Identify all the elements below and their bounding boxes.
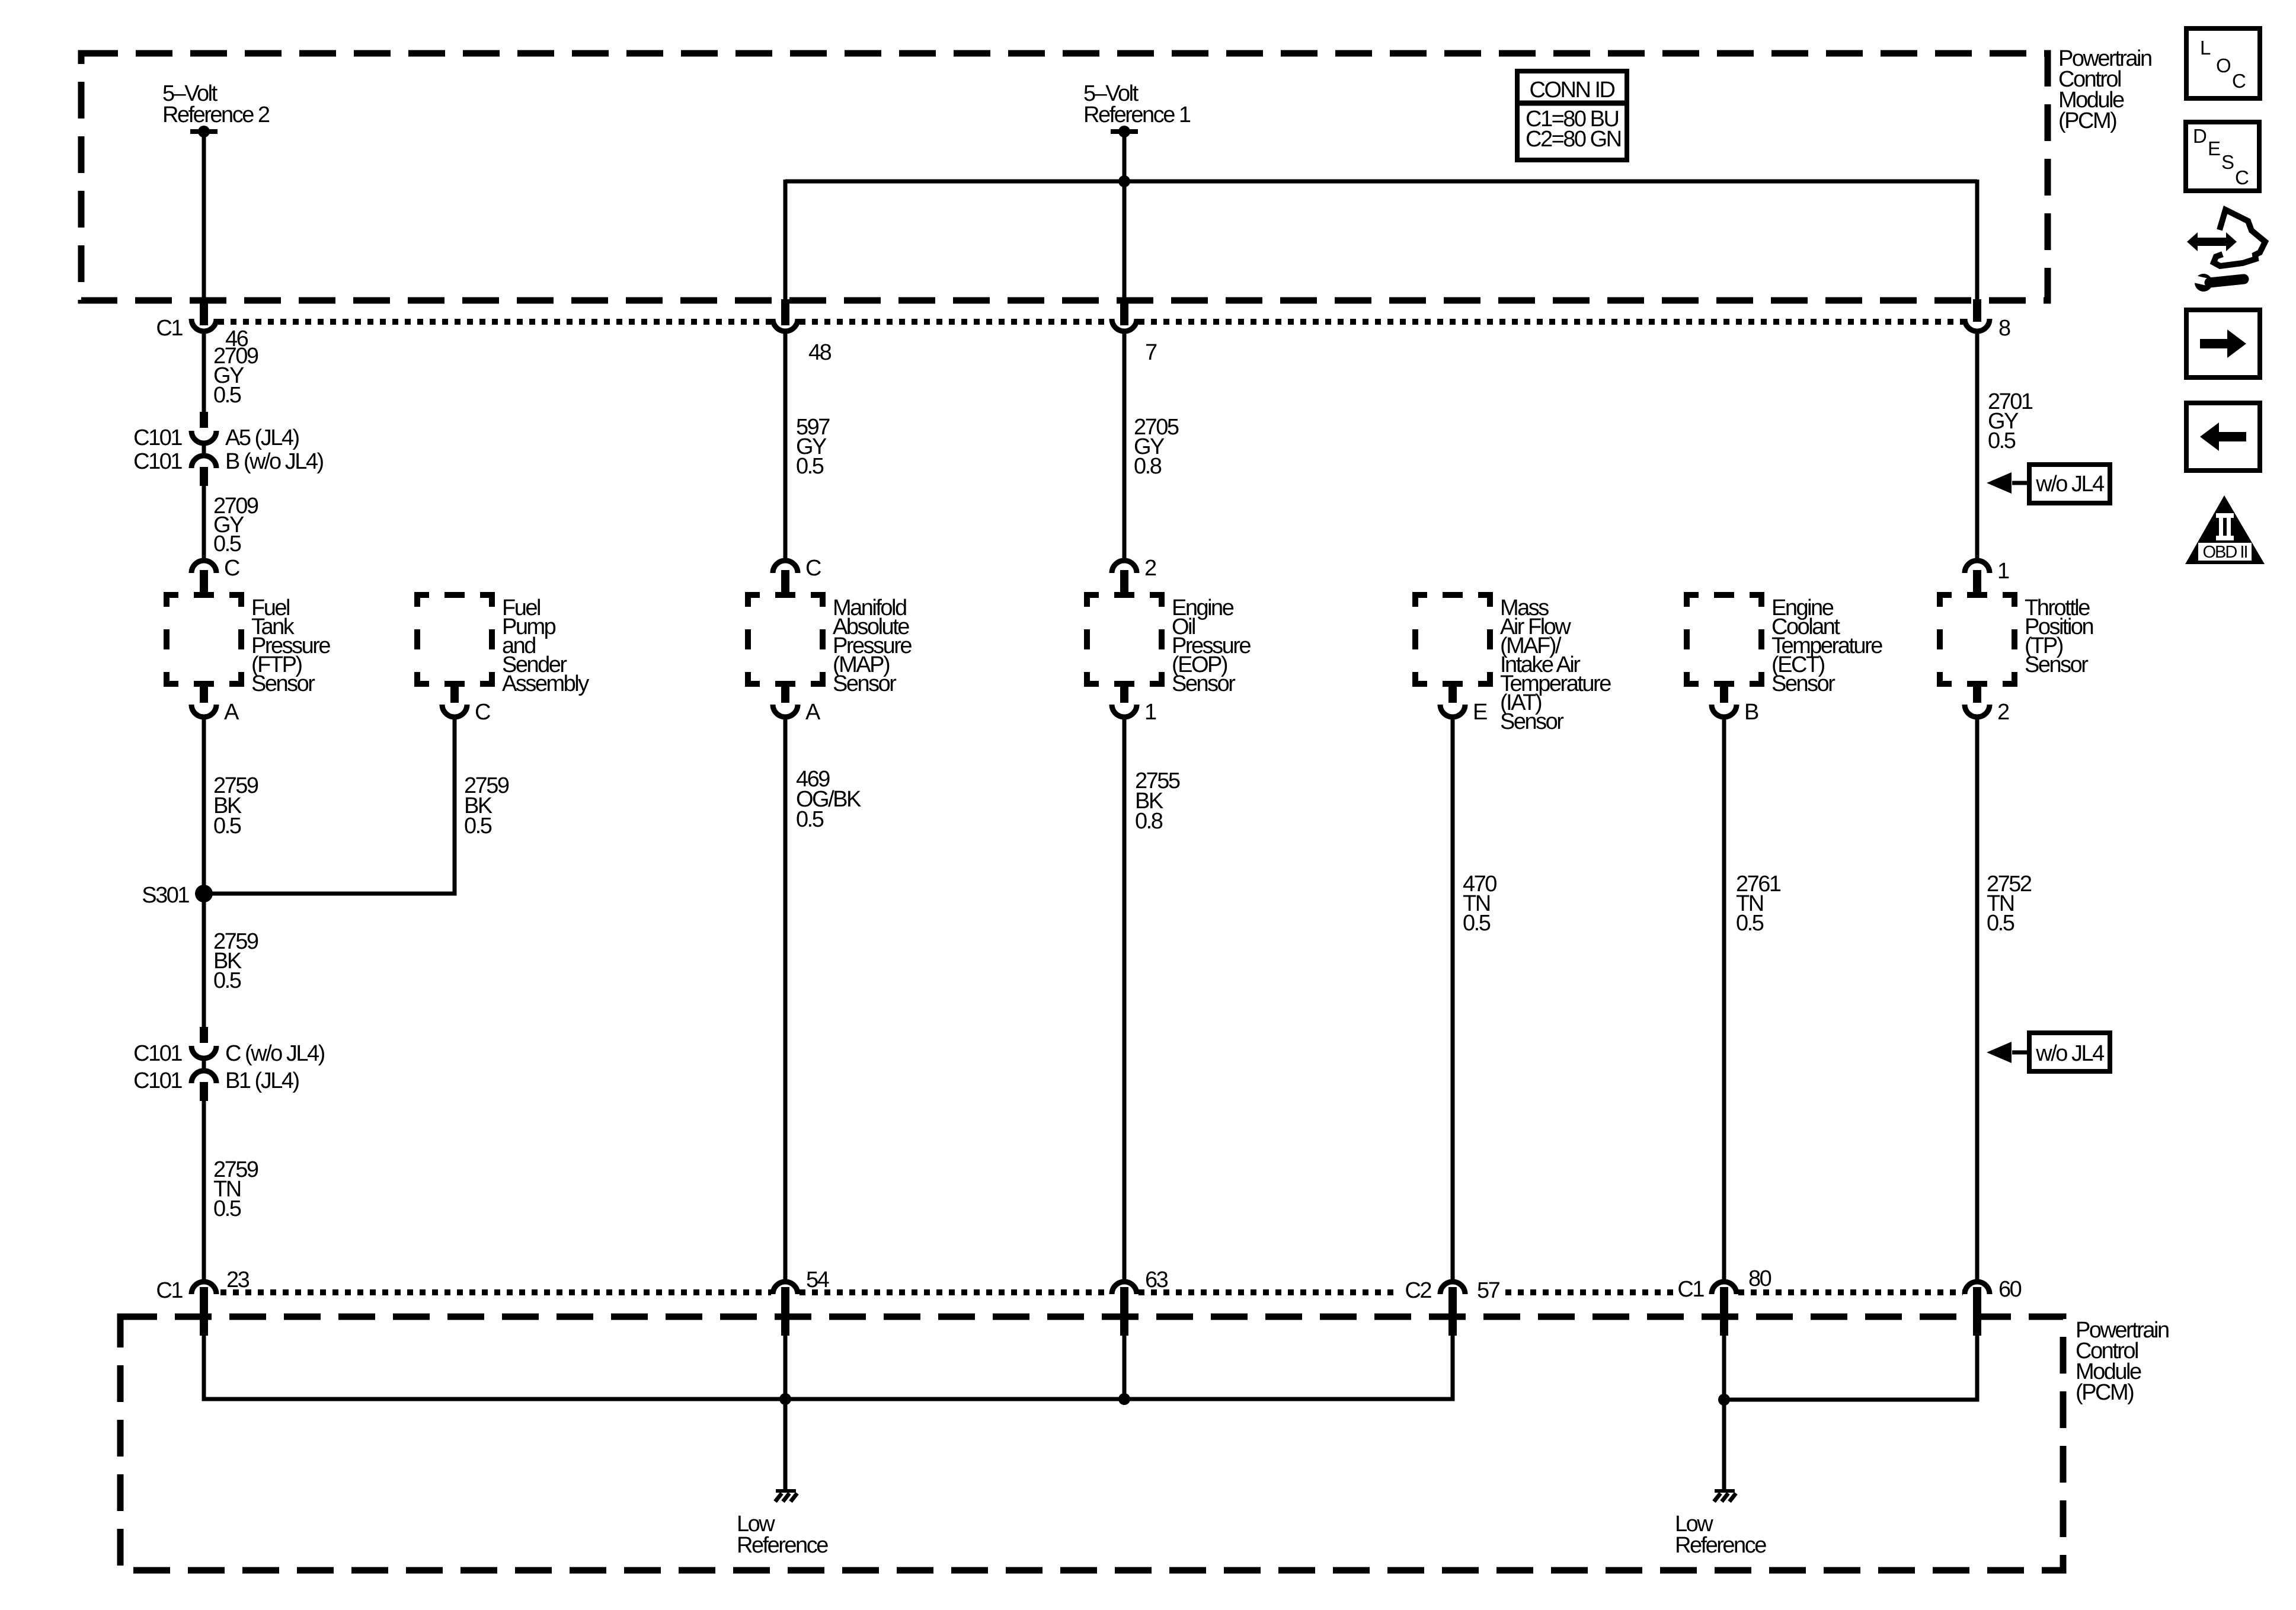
svg-text:60: 60	[1998, 1277, 2022, 1302]
svg-text:C2=80 GN: C2=80 GN	[1526, 127, 1621, 152]
svg-text:0.5: 0.5	[796, 454, 824, 479]
svg-text:80: 80	[1748, 1266, 1771, 1291]
svg-text:(PCM): (PCM)	[2058, 108, 2116, 133]
svg-text:w/o JL4: w/o JL4	[2035, 1041, 2105, 1066]
callout: w/o JL4 (lower)	[1987, 1033, 2110, 1071]
svg-text:0.5: 0.5	[464, 814, 492, 838]
pin A of FTP sensor	[191, 683, 239, 725]
svg-text:E: E	[2208, 137, 2220, 159]
wire 2761 TN 0.5 (ECT to pin 80)	[1724, 719, 1781, 1281]
icon: LOC button	[2186, 28, 2260, 98]
icon: DESC button	[2186, 122, 2259, 191]
svg-text:Reference 1: Reference 1	[1083, 103, 1191, 127]
pin A of MAP sensor	[773, 683, 821, 725]
svg-text:C: C	[2232, 70, 2246, 92]
wire: 5V ref 2 down to pin 46	[202, 135, 206, 325]
svg-text:(PCM): (PCM)	[2076, 1380, 2134, 1405]
CONN ID table	[1517, 71, 1627, 160]
wire: low reference bus (pin 80 to pin 60)	[1724, 1334, 1977, 1400]
svg-text:C101: C101	[133, 1041, 182, 1066]
svg-text:C: C	[475, 700, 490, 725]
svg-text:A: A	[224, 700, 239, 725]
svg-text:0.5: 0.5	[213, 383, 241, 408]
svg-text:C101: C101	[133, 1068, 182, 1093]
PCM bottom dashed box	[120, 1317, 2063, 1570]
svg-text:B (w/o JL4): B (w/o JL4)	[225, 449, 324, 474]
label: Low Reference (right)	[1675, 1512, 1766, 1558]
svg-text:0.5: 0.5	[1988, 428, 2016, 453]
junction: bus / pin 63 wire	[1118, 1334, 1130, 1405]
svg-text:0.5: 0.5	[1463, 911, 1491, 936]
junction: bus / pin 80 wire	[1718, 1334, 1730, 1406]
svg-text:0.5: 0.5	[213, 968, 241, 993]
sensor: Throttle Position (TP)	[1940, 595, 2093, 684]
svg-text:Sensor: Sensor	[1172, 671, 1236, 696]
svg-text:C101: C101	[133, 425, 182, 450]
sensor: Engine Coolant Temperature (ECT)	[1687, 595, 1882, 696]
svg-text:C2: C2	[1405, 1278, 1431, 1303]
pin 7	[1112, 319, 1157, 365]
pin C of FTP sensor	[191, 556, 239, 596]
icon: previous arrow button	[2186, 403, 2260, 470]
low reference drop (MAP side)	[784, 1399, 788, 1490]
wire 2759 BK 0.5 (FTP pin A down)	[204, 719, 258, 894]
svg-text:Sensor: Sensor	[1500, 709, 1564, 734]
pin 1 of EOP sensor	[1112, 683, 1156, 725]
terminal: 5-Volt Reference 2	[190, 126, 218, 137]
svg-text:CONN ID: CONN ID	[1530, 78, 1615, 103]
icon: service/diagnostic (double arrow, head outline, wrench)	[2187, 210, 2265, 292]
sensor: Fuel Tank Pressure (FTP)	[167, 595, 330, 696]
svg-text:0.5: 0.5	[796, 807, 824, 832]
svg-text:48: 48	[808, 340, 832, 365]
sensor: Fuel Pump and Sender Assembly	[417, 595, 589, 696]
svg-text:63: 63	[1145, 1267, 1168, 1292]
svg-text:0.5: 0.5	[213, 814, 241, 838]
wire 2759 BK 0.5 (S301 down to C101)	[204, 894, 258, 1028]
wire 2755 BK 0.8 (EOP to pin 63)	[1124, 719, 1180, 1281]
wire: low reference bus (pin 23 to pin 57)	[204, 1334, 1453, 1399]
svg-text:S: S	[2221, 151, 2234, 173]
svg-text:B: B	[1744, 700, 1758, 725]
ground: low reference (MAP side)	[775, 1491, 797, 1502]
svg-text:0.8: 0.8	[1134, 454, 1162, 479]
low reference drop (ECT side)	[1722, 1400, 1726, 1490]
svg-text:0.5: 0.5	[213, 1196, 241, 1221]
svg-text:D: D	[2193, 125, 2207, 147]
svg-text:A: A	[805, 700, 821, 725]
svg-text:C: C	[805, 556, 821, 581]
label: Low Reference (left)	[737, 1512, 828, 1558]
svg-text:A5 (JL4): A5 (JL4)	[225, 425, 299, 450]
connector line (dotted, bottom)	[220, 1289, 1963, 1295]
sensor: Mass Air Flow (MAF)/Intake Air Temperature (IAT)	[1415, 595, 1611, 734]
svg-text:2: 2	[1144, 556, 1156, 581]
pin B of ECT sensor	[1712, 683, 1758, 725]
svg-text:Sensor: Sensor	[1771, 671, 1835, 696]
pin C1-23	[156, 1267, 249, 1336]
PCM top dashed box	[81, 53, 2048, 300]
wire 597 GY 0.5 (pin 48 to MAP)	[785, 333, 830, 559]
svg-text:0.5: 0.5	[213, 532, 241, 556]
sensor: Manifold Absolute Pressure (MAP)	[748, 595, 912, 696]
wire 469 OG/BK 0.5 (MAP to pin 54)	[785, 719, 861, 1281]
svg-text:1: 1	[1144, 700, 1156, 725]
label: Powertrain Control Module (PCM) bottom	[2076, 1318, 2169, 1405]
svg-text:0.8: 0.8	[1135, 809, 1163, 834]
wire 470 TN 0.5 (MAF to pin 57)	[1453, 719, 1496, 1281]
sensor: Engine Oil Pressure (EOP)	[1087, 595, 1251, 696]
junction: bus / 5V ref1	[1118, 175, 1130, 187]
pin C of Fuel Pump	[442, 683, 490, 725]
svg-text:2: 2	[1997, 700, 2009, 725]
node: 5-Volt Reference 1 label	[1083, 81, 1191, 127]
svg-text:E: E	[1473, 700, 1487, 725]
svg-text:C (w/o JL4): C (w/o JL4)	[225, 1041, 325, 1066]
svg-text:0.5: 0.5	[1736, 911, 1764, 936]
connector line C1 (dotted)	[218, 319, 1963, 325]
svg-text:C1: C1	[1677, 1277, 1704, 1302]
svg-text:1: 1	[1997, 559, 2009, 584]
pin C2-57	[1405, 1278, 1499, 1336]
svg-text:Sensor: Sensor	[2025, 652, 2089, 677]
svg-text:C: C	[2235, 167, 2249, 188]
wire 2759 TN 0.5 (C101 to pin 23)	[204, 1100, 258, 1281]
svg-text:8: 8	[1998, 316, 2010, 341]
wire: bus drop to pin 48	[784, 180, 788, 325]
pin 54	[773, 1267, 830, 1336]
svg-text:Reference: Reference	[737, 1533, 828, 1558]
pin C of MAP sensor (top)	[773, 556, 821, 596]
svg-text:C101: C101	[133, 449, 182, 474]
svg-text:7: 7	[1145, 340, 1157, 365]
pin 1 of TP sensor (top)	[1965, 559, 2009, 596]
node: 5-Volt Reference 2 label	[162, 81, 270, 127]
svg-text:23: 23	[226, 1267, 250, 1292]
terminal: 5-Volt Reference 1	[1111, 126, 1138, 137]
pin C1-46	[156, 316, 248, 351]
svg-text:OBD II: OBD II	[2202, 543, 2247, 562]
svg-text:0.5: 0.5	[1987, 911, 2014, 936]
svg-text:Reference 2: Reference 2	[162, 103, 270, 127]
ground: low reference (ECT side)	[1714, 1491, 1736, 1502]
svg-text:Reference: Reference	[1675, 1533, 1766, 1558]
icon: next arrow button	[2186, 310, 2260, 377]
pin 2 of EOP sensor (top)	[1112, 556, 1156, 596]
wire: 5V reference bus	[785, 180, 1977, 184]
svg-text:54: 54	[806, 1267, 830, 1292]
pin 2 of TP sensor	[1965, 683, 2009, 725]
wire: 5V ref 1 down to pin 7	[1123, 135, 1127, 325]
junction: bus / pin 54 wire	[779, 1334, 791, 1405]
pin 60	[1965, 1277, 2022, 1336]
svg-text:C: C	[224, 556, 239, 581]
pin C1-80	[1677, 1266, 1771, 1336]
svg-text:O: O	[2216, 55, 2231, 76]
svg-text:Sensor: Sensor	[251, 671, 315, 696]
inline connector C101 A5/B	[133, 412, 323, 486]
wire 2709 GY 0.5 (pin 46 to C101)	[204, 333, 258, 413]
splice S301	[142, 883, 213, 908]
icon: OBD II badge	[2185, 495, 2265, 564]
inline connector C101 C/B1	[133, 1027, 324, 1101]
svg-text:Assembly: Assembly	[502, 671, 589, 696]
svg-text:w/o JL4: w/o JL4	[2035, 472, 2105, 497]
wire 2705 GY 0.8 (pin 7 to EOP)	[1124, 333, 1179, 559]
pin 63	[1112, 1267, 1168, 1336]
wire 2752 TN 0.5 (TP to pin 60)	[1977, 719, 2032, 1281]
svg-text:Sensor: Sensor	[833, 671, 897, 696]
wire 2709 GY 0.5 (C101 to FTP sensor)	[204, 485, 258, 559]
wire 2759 BK 0.5 (Fuel Pump pin C down to splice)	[209, 719, 509, 894]
label: Powertrain Control Module (PCM) top	[2058, 46, 2151, 133]
svg-text:L: L	[2200, 37, 2211, 59]
svg-text:C1: C1	[156, 1278, 183, 1303]
pin E of MAF/IAT sensor	[1440, 683, 1487, 725]
svg-text:B1 (JL4): B1 (JL4)	[225, 1068, 299, 1093]
pin 48	[773, 319, 832, 365]
wire 2701 GY 0.5 (pin 8 to TP)	[1977, 333, 2033, 559]
svg-text:57: 57	[1477, 1278, 1500, 1303]
svg-text:C1: C1	[156, 316, 183, 341]
wire: bus drop to pin 8	[1975, 180, 1980, 322]
callout: w/o JL4 (upper)	[1987, 465, 2110, 503]
svg-text:S301: S301	[142, 883, 189, 908]
pin 8	[1965, 316, 2010, 341]
